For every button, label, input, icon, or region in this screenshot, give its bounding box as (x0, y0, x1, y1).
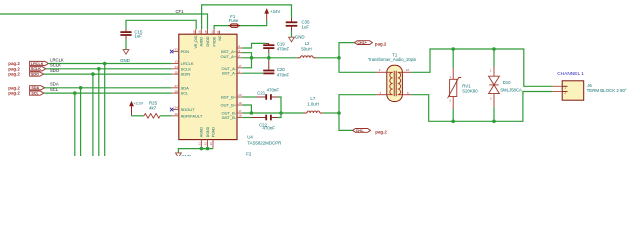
svg-text:23: 23 (210, 30, 214, 34)
svg-text:SCLK: SCLK (50, 63, 61, 68)
svg-text:470nF: 470nF (263, 126, 276, 131)
ground under IC (176, 153, 182, 158)
svg-text:pag.2: pag.2 (8, 66, 20, 71)
svg-text:OUT_A+: OUT_A+ (221, 54, 237, 59)
global label SCL (30, 91, 44, 95)
global label SCLK (30, 67, 46, 71)
pin numbers (379, 68, 410, 95)
power +24V (265, 9, 268, 19)
wire C22 right corner up (278, 113, 281, 118)
wire main row channel A (243, 57, 297, 59)
svg-text:SDOUT: SDOUT (181, 107, 196, 112)
global label SDO (30, 72, 44, 76)
svg-text:CH1+: CH1+ (357, 41, 367, 45)
svg-text:OUT_B+: OUT_B+ (221, 102, 237, 107)
wire top-left horizontal to DVDD (0, 14, 208, 29)
svg-text:PGND: PGND (211, 127, 215, 138)
node SCLK tap (97, 67, 101, 71)
wire R25 to ADR/FAULT (160, 115, 172, 117)
svg-text:SDO: SDO (31, 73, 39, 77)
wire SCL down (74, 93, 76, 156)
TVS diode D10 (493, 49, 495, 67)
svg-text:CF1: CF1 (176, 9, 185, 14)
svg-text:AVDD: AVDD (200, 37, 204, 47)
svg-text:GND: GND (295, 35, 305, 40)
node SDO tap (91, 72, 95, 76)
svg-text:VR_DIG: VR_DIG (194, 35, 198, 48)
wire transformer pin4 feed (339, 95, 376, 113)
svg-text:24: 24 (192, 30, 196, 34)
inductor L7 (304, 111, 324, 113)
node SDA tap (79, 86, 83, 90)
ground below C35 (289, 37, 295, 42)
capacitor C15 (120, 29, 131, 40)
node OUT_B junctions (250, 111, 254, 115)
core (393, 71, 395, 96)
node RV1 top junction (451, 47, 455, 51)
svg-text:21: 21 (216, 30, 220, 34)
svg-text:pag.2: pag.2 (8, 72, 20, 77)
svg-text:25: 25 (204, 30, 208, 34)
wire L7 to node (323, 112, 339, 114)
node CH1- junction (337, 111, 341, 115)
svg-text:SDA: SDA (31, 86, 39, 90)
svg-text:pag.2: pag.2 (375, 130, 387, 135)
svg-text:pag.2: pag.2 (8, 91, 20, 96)
node SCL tap (73, 91, 77, 95)
wire SCLK (46, 68, 172, 70)
svg-text:DGND: DGND (206, 126, 210, 137)
svg-text:1uF: 1uF (134, 34, 142, 39)
wire C21 right corner down (278, 97, 281, 113)
node RV1 bottom junction (451, 120, 455, 124)
svg-text:U4: U4 (247, 135, 253, 140)
IC bottom pin stubs (201, 140, 213, 149)
wire BST_B- to C22 (243, 117, 252, 119)
global label SDA (30, 86, 45, 90)
pin stubs (376, 72, 411, 94)
svg-text:SMLJ58CA: SMLJ58CA (500, 88, 522, 93)
wire SDO down (92, 74, 94, 156)
global label CH1+ (355, 41, 373, 45)
svg-text:S20K80: S20K80 (462, 89, 478, 94)
no-connect X on SDOUT (170, 108, 174, 112)
svg-text:21: 21 (198, 142, 202, 146)
wire SCLK down (98, 69, 100, 156)
node LRCLK tap (103, 62, 107, 66)
svg-text:PVDD: PVDD (212, 36, 216, 46)
wire SDA (45, 87, 172, 89)
wire up to CH1+ label (339, 43, 355, 58)
global label LRCLK (30, 61, 49, 65)
wire transformer pin2 feed (339, 58, 376, 73)
IC right pin stubs (237, 48, 243, 118)
node OUT_A junctions (250, 56, 254, 60)
op-amp U4 body (179, 34, 237, 139)
fuse F1 (228, 24, 240, 27)
svg-text:pag.2: pag.2 (8, 61, 20, 66)
svg-text:BST_B+: BST_B+ (221, 94, 237, 99)
svg-text:NC: NC (218, 35, 222, 41)
svg-text:SCL: SCL (181, 91, 190, 96)
IC left pin numbers (174, 48, 178, 116)
global label CH1- (353, 129, 371, 133)
wire fuse to +24V (239, 20, 267, 26)
svg-text:SDA: SDA (181, 85, 190, 90)
svg-text:SDA: SDA (50, 82, 59, 87)
svg-text:D10: D10 (503, 80, 511, 85)
svg-text:SDO: SDO (50, 68, 60, 73)
IC left pin stubs (172, 52, 179, 116)
IC top pin numbers (192, 30, 220, 34)
svg-text:pag.2: pag.2 (8, 85, 20, 90)
resistor R25 (144, 114, 160, 119)
svg-text:SCLK: SCLK (31, 67, 41, 71)
capacitor C35 (286, 18, 298, 31)
wire C19 bottom to out row (268, 53, 270, 57)
svg-text:470nF: 470nF (277, 72, 290, 77)
svg-text:SDIN: SDIN (181, 72, 191, 77)
svg-text:AGND: AGND (200, 127, 204, 138)
wire C15 to ground (125, 40, 127, 50)
svg-text:LRCLK: LRCLK (50, 57, 64, 62)
svg-text:CH1-: CH1- (356, 129, 365, 133)
svg-text:LRCLK: LRCLK (181, 61, 194, 66)
svg-text:+3.3V: +3.3V (133, 102, 143, 106)
svg-text:1uF: 1uF (302, 25, 310, 30)
wire SDO (44, 73, 172, 75)
wire transformer pin6 to bottom bus (411, 92, 552, 122)
wire L2 to node (317, 57, 339, 59)
IC top pin stubs (196, 29, 220, 34)
wire OUT_A- jog up (243, 58, 252, 68)
junction dots ground bus (200, 147, 204, 151)
svg-text:SCL: SCL (50, 87, 59, 92)
wire IC ground bus (201, 147, 207, 149)
svg-text:10: 10 (406, 68, 410, 72)
svg-text:LRCLK: LRCLK (31, 62, 44, 66)
wire C20 top lead (268, 58, 270, 61)
svg-text:+24V: +24V (270, 9, 280, 14)
svg-text:GND: GND (181, 154, 191, 156)
svg-text:470nF: 470nF (277, 46, 290, 51)
wire VR_DIG top loop to C35 (202, 5, 292, 29)
svg-text:1.0uH: 1.0uH (307, 102, 319, 107)
wire main row channel B (243, 112, 304, 114)
wire BST_A+ to C19 top (243, 43, 267, 48)
svg-text:GND: GND (120, 58, 130, 63)
svg-text:L7: L7 (310, 96, 315, 101)
wire +3.3V to R25 (132, 115, 145, 117)
svg-text:Transformer_Audio_10pin: Transformer_Audio_10pin (368, 57, 417, 62)
IC top pin names (194, 35, 222, 49)
svg-text:TERM BLOCK 2 90°: TERM BLOCK 2 90° (587, 88, 627, 93)
svg-text:ADR/FAULT: ADR/FAULT (181, 113, 203, 118)
wire C35 to ground (291, 31, 293, 38)
capacitor C21 (256, 94, 278, 100)
wire SCL (44, 92, 172, 94)
wire transformer pin10 to top bus (411, 49, 552, 86)
wire C15 to AVDD (126, 20, 196, 29)
capacitor C22 (251, 115, 278, 121)
svg-text:L2: L2 (305, 41, 310, 46)
wire SDA down (80, 88, 82, 156)
power +3.3V (130, 102, 133, 116)
svg-text:TAS5822MDCPR: TAS5822MDCPR (247, 140, 281, 145)
svg-text:470nF: 470nF (267, 87, 280, 92)
svg-text:DVDD: DVDD (206, 36, 210, 46)
node D10 top junction (492, 47, 496, 51)
svg-text:22: 22 (204, 142, 208, 146)
wire OUT_A+ jog down (243, 53, 252, 58)
ground below C15 (123, 50, 129, 55)
svg-text:4k7: 4k7 (149, 106, 157, 111)
capacitor C20 (263, 61, 274, 74)
svg-text:BST_B-: BST_B- (222, 115, 237, 120)
node D10 bottom junction (492, 120, 496, 124)
svg-text:50uH: 50uH (301, 47, 312, 52)
svg-text:F2: F2 (246, 152, 252, 156)
svg-text:SCLK: SCLK (181, 66, 192, 71)
svg-text:Fuse: Fuse (229, 18, 239, 23)
IC left pin names (181, 49, 203, 118)
wire OUT_B+ jog down (243, 105, 252, 113)
wire PVDD to fuse (214, 26, 230, 30)
svg-text:pag.2: pag.2 (375, 42, 387, 47)
svg-text:SCL: SCL (31, 92, 39, 96)
IC right pin names (221, 49, 237, 120)
svg-text:23: 23 (209, 142, 213, 146)
windings (387, 72, 403, 94)
no-connect X on PDN (170, 50, 174, 54)
IC right pin numbers (238, 44, 242, 118)
svg-text:PDN: PDN (181, 49, 190, 54)
connector J6 (553, 81, 584, 100)
svg-text:CHANNEL 1: CHANNEL 1 (557, 71, 584, 77)
IC bottom pin numbers (198, 142, 214, 146)
svg-text:C21: C21 (257, 90, 266, 95)
wire down to CH1- label (339, 113, 353, 130)
wire BST_B+ to C21 (243, 96, 257, 98)
wire LRCLK down (104, 64, 106, 157)
node CH1+ junction (337, 56, 341, 60)
inductor L2 (297, 56, 317, 58)
svg-text:26: 26 (198, 30, 202, 34)
svg-text:BST_A-: BST_A- (222, 71, 237, 76)
svg-text:2: 2 (564, 91, 566, 95)
wire BST_A- to C20 bottom (243, 72, 264, 74)
IC bottom pin names (200, 126, 216, 137)
capacitor C19 (263, 43, 274, 53)
varistor RV1 (452, 49, 454, 68)
svg-text:1: 1 (564, 86, 566, 90)
wire LRCLK (48, 63, 171, 65)
